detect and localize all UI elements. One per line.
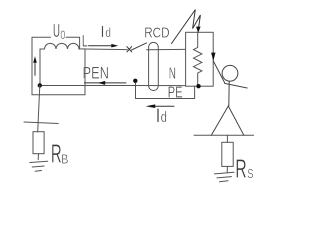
arrow Id top pointing right — [89, 44, 119, 48]
current arrow up near transformer — [33, 56, 37, 75]
transformer winding L1 — [40, 43, 85, 49]
U0 bracket right segment — [66, 37, 80, 49]
label L — [82, 31, 88, 50]
svg-text:B: B — [61, 152, 68, 166]
RCD toroid — [149, 42, 159, 90]
svg-text:PEN: PEN — [83, 64, 110, 82]
label U0 — [53, 20, 66, 42]
svg-text:R: R — [51, 139, 62, 169]
wire PEN earth drop — [38, 86, 40, 132]
appliance enclosure box — [186, 32, 214, 86]
svg-text:d: d — [105, 25, 111, 40]
svg-text:U: U — [53, 20, 60, 41]
label N — [169, 66, 176, 83]
label RB — [51, 139, 68, 169]
svg-text:R: R — [235, 154, 247, 184]
resistor Rs — [222, 142, 233, 166]
node PEN left junction — [38, 83, 42, 87]
wire to Rs — [226, 135, 228, 142]
label PEN — [83, 64, 110, 82]
wire Rs to earth — [226, 166, 228, 172]
fault resistance zigzag — [194, 32, 202, 86]
svg-text:I: I — [100, 24, 104, 41]
earth ground symbol left — [30, 161, 48, 171]
resistor RB — [33, 132, 44, 154]
wire transformer left lead down — [39, 49, 41, 85]
ground surface line left — [24, 122, 58, 124]
wire RB to earth — [37, 154, 39, 160]
person torso — [228, 81, 230, 106]
label RCD — [144, 26, 169, 42]
wire PEN conductor — [40, 85, 186, 87]
wire touch contact diagonal — [213, 61, 224, 83]
arrow Id bottom pointing left — [146, 104, 174, 108]
svg-text:L: L — [82, 31, 88, 50]
ground surface line right — [194, 134, 254, 136]
label Rs — [235, 154, 254, 184]
svg-text:RCD: RCD — [144, 26, 169, 42]
svg-text:PE: PE — [168, 85, 183, 102]
arrow fault current down enclosure edge — [211, 53, 215, 61]
wire N branch — [136, 83, 195, 99]
svg-text:d: d — [161, 109, 167, 126]
switch blade open — [132, 43, 147, 50]
svg-text:S: S — [247, 166, 253, 181]
label PE — [168, 85, 183, 102]
transformer outer frame left side — [32, 37, 85, 94]
person head — [222, 65, 238, 81]
fault point x mark — [127, 47, 132, 52]
node resistor bottom junction — [196, 84, 200, 88]
node N branch junction dot — [133, 79, 137, 83]
arrow PEN pointing left — [85, 81, 127, 85]
svg-text:0: 0 — [60, 30, 65, 42]
person legs — [211, 106, 244, 135]
label Id bottom — [156, 106, 167, 127]
label Id top — [100, 24, 111, 41]
wire L conductor — [85, 48, 127, 51]
lightning fault symbol — [172, 10, 201, 44]
earth ground symbol right — [215, 172, 235, 182]
svg-text:I: I — [156, 106, 161, 127]
svg-text:N: N — [169, 66, 176, 83]
person arm — [225, 83, 248, 88]
wire L conductor to appliance — [147, 48, 186, 50]
